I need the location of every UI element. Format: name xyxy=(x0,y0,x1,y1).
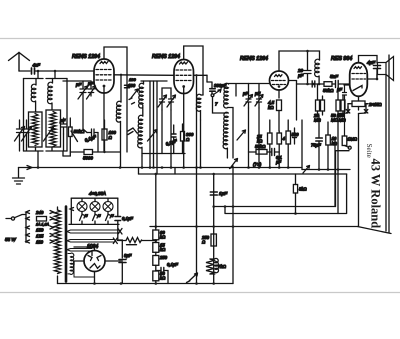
coil L10 xyxy=(223,112,228,158)
svg-text:50kΩ: 50kΩ xyxy=(323,88,334,93)
svg-text:0,1µF: 0,1µF xyxy=(84,134,97,143)
svg-text:125: 125 xyxy=(36,234,44,239)
cathode circuit V4 xyxy=(358,96,360,101)
svg-text:µF: µF xyxy=(298,73,304,78)
svg-text:50kΩ: 50kΩ xyxy=(255,144,266,149)
rail y226 xyxy=(150,226,358,228)
lamp bottom line xyxy=(69,223,119,225)
HV winding xyxy=(70,253,74,274)
capacitor 0,1uF xyxy=(87,129,98,136)
svg-text:kΩ: kΩ xyxy=(268,105,274,110)
svg-text:70µF: 70µF xyxy=(311,143,321,148)
cathode wire V1 xyxy=(103,87,105,152)
tank2 bottom rail xyxy=(46,134,67,151)
resistor 250 xyxy=(211,234,216,246)
top cap wire V2 xyxy=(184,46,203,95)
wire row y83 (tube3 grid) xyxy=(229,84,270,97)
coil box L2 xyxy=(29,112,43,147)
wire mid row y152 xyxy=(63,152,120,156)
svg-text:RENS 1264: RENS 1264 xyxy=(240,56,268,62)
frame bottom slant xyxy=(358,227,392,234)
potentiometer 50k xyxy=(69,127,73,137)
svg-text:4µF: 4µF xyxy=(367,60,376,65)
electrolytic 8uF xyxy=(119,260,126,263)
top cap wire V4 xyxy=(359,56,378,64)
node: main ground bus xyxy=(19,167,197,169)
selector column xyxy=(25,212,27,243)
wire row y81 xyxy=(141,80,167,82)
bus right of jog xyxy=(197,167,303,169)
switch S4 xyxy=(230,159,238,169)
trimmer capacitor C5 xyxy=(80,81,86,129)
capacitor 0,1uF lamps xyxy=(118,198,123,258)
vertical wires to bus xyxy=(150,81,157,174)
svg-text:2×15Ω: 2×15Ω xyxy=(368,102,382,107)
wire tank bottoms to bus xyxy=(37,151,39,168)
svg-text:1MΩ: 1MΩ xyxy=(348,137,358,142)
resistor 500 with cap xyxy=(286,131,291,144)
svg-text:1A 1,6A: 1A 1,6A xyxy=(36,223,50,227)
svg-text:0,1µF: 0,1µF xyxy=(122,216,133,221)
svg-text:5nF: 5nF xyxy=(330,74,339,79)
svg-text:µF: µF xyxy=(276,160,281,165)
svg-text:µF: µF xyxy=(337,87,342,92)
capacitor 20pF xyxy=(304,51,311,84)
field coil + resistor xyxy=(206,259,214,274)
junction dots bus xyxy=(37,166,40,169)
capacitor 3,1uF xyxy=(161,268,164,274)
cap blob 0,1 xyxy=(172,134,177,137)
svg-text:Ω: Ω xyxy=(186,137,190,142)
svg-text:RENS 1294: RENS 1294 xyxy=(152,54,180,60)
frame right border xyxy=(388,55,390,233)
svg-text:100: 100 xyxy=(128,83,136,88)
capacitor 4uF xyxy=(374,66,381,69)
coil L9 xyxy=(224,83,229,108)
svg-text:240: 240 xyxy=(35,210,44,215)
speaker xyxy=(378,57,394,81)
svg-text:100: 100 xyxy=(129,77,136,82)
variable capacitor C2 xyxy=(24,120,29,145)
coil L6 xyxy=(139,83,144,116)
svg-text:5kΩ: 5kΩ xyxy=(299,187,307,192)
svg-text:kΩ: kΩ xyxy=(160,247,166,252)
capacitor 1uF xyxy=(210,192,217,195)
capacitor (grid) xyxy=(343,85,347,136)
wire row y153.5 xyxy=(142,153,185,155)
bottom bus xyxy=(58,283,234,285)
coil box L4 xyxy=(46,110,61,147)
wiper arrow L7 xyxy=(148,130,158,142)
resistor 4,5k xyxy=(277,100,282,111)
coil L1 xyxy=(31,79,36,113)
resistor chain xyxy=(153,230,159,240)
grid wire V4 xyxy=(344,84,350,86)
svg-text:150: 150 xyxy=(36,228,44,233)
page rule top xyxy=(0,38,400,40)
switch arrow (AVC) xyxy=(303,166,310,174)
mains switch xyxy=(6,218,12,220)
svg-text:5000: 5000 xyxy=(83,156,93,161)
svg-text:U: U xyxy=(98,214,101,218)
switch S3 xyxy=(211,94,214,97)
resistor 10k xyxy=(326,135,331,145)
wire tank1 left xyxy=(23,79,25,152)
transformer T1 primary xyxy=(55,210,61,274)
resistor pair 100M xyxy=(336,100,340,111)
capacitor 300pF xyxy=(207,82,212,88)
wire row y84 (AF line) xyxy=(297,83,350,85)
variable capacitor C3 xyxy=(44,127,54,142)
resistor 50k (series AF) xyxy=(324,82,332,87)
svg-text:4×0,35A: 4×0,35A xyxy=(89,191,106,196)
wiper arrow L10 xyxy=(237,130,246,140)
wire drops power section xyxy=(156,168,233,284)
anode wire V1 xyxy=(114,74,174,77)
AF choke coil L11 xyxy=(315,59,320,84)
trimmer capacitor C6 xyxy=(88,81,93,96)
small resistor GND box xyxy=(293,185,297,194)
svg-text:RENS 1294: RENS 1294 xyxy=(72,54,100,60)
capacitor 5000 xyxy=(84,150,93,155)
junction xyxy=(37,70,40,73)
trimmer capacitor C10 xyxy=(257,96,262,108)
svg-text:Ω: Ω xyxy=(109,135,113,140)
rail y213 xyxy=(225,174,347,214)
variable capacitor C1 xyxy=(17,120,23,145)
anode wire V3 xyxy=(289,81,297,121)
lamp feed vertical xyxy=(70,198,72,224)
svg-text:pF: pF xyxy=(87,81,94,86)
svg-text:kΩ: kΩ xyxy=(160,235,166,240)
svg-text:(7×): (7×) xyxy=(253,162,262,167)
potentiometer 1M xyxy=(342,136,347,146)
page rule bottom xyxy=(0,292,400,294)
resistor 300 xyxy=(181,132,185,142)
cathode wire V2 xyxy=(183,88,185,168)
svg-text:pF: pF xyxy=(242,91,248,96)
potentiometer arrow xyxy=(187,273,198,283)
coil L7 (tapped) xyxy=(138,115,143,156)
heater winding loop 2 xyxy=(67,240,114,243)
top cap wire V3 xyxy=(279,51,320,71)
capacitor 4nF (antenna coupling) xyxy=(32,68,35,74)
X marks xyxy=(346,110,368,114)
svg-text:pF: pF xyxy=(254,91,260,96)
rail y206 xyxy=(214,140,335,207)
capacitor 5nF xyxy=(336,81,339,88)
wire antenna to coupling cap xyxy=(19,70,30,72)
antenna xyxy=(9,53,30,72)
fuse xyxy=(37,217,47,222)
heater winding loop 1 xyxy=(67,230,119,233)
top cap wire V1 xyxy=(104,47,127,152)
resistor 25k xyxy=(268,133,273,144)
svg-text:250: 250 xyxy=(159,255,168,260)
svg-text:pF: pF xyxy=(75,82,82,87)
resistor 100 xyxy=(102,129,107,140)
wire trimmer row xyxy=(63,80,91,82)
capacitor 0,1uF det xyxy=(272,149,275,156)
svg-text:MΩ: MΩ xyxy=(314,118,321,123)
svg-text:U: U xyxy=(111,214,114,218)
resistor 50k detector load xyxy=(256,150,267,155)
wire tank2 riser xyxy=(54,71,56,79)
wire pot bottom xyxy=(336,150,350,152)
cathode wire V3 xyxy=(278,90,280,98)
svg-text:8µF: 8µF xyxy=(124,253,132,258)
wire to first grid line xyxy=(35,70,95,72)
trimmer capacitor C7 xyxy=(160,93,165,110)
lamp switches xyxy=(80,212,86,225)
svg-text:kΩ: kΩ xyxy=(257,139,263,144)
riser wires right xyxy=(335,151,337,207)
switch S2 xyxy=(128,128,137,135)
capacitor C4 xyxy=(61,118,66,134)
heater winding loop 3 xyxy=(67,249,92,252)
svg-text:U: U xyxy=(85,214,88,218)
tank2 right wire xyxy=(66,79,68,152)
coil L3 xyxy=(48,79,53,111)
trimmer capacitor C9 xyxy=(246,96,251,108)
choke zigzag xyxy=(126,238,142,243)
svg-text:1µF: 1µF xyxy=(219,191,228,196)
svg-text:4nF: 4nF xyxy=(33,63,41,68)
resistor (second) xyxy=(277,133,282,144)
tank1 bottom rail xyxy=(20,145,44,151)
svg-text:0,1µF: 0,1µF xyxy=(167,262,178,267)
svg-text:pF: pF xyxy=(59,118,66,123)
transformer core xyxy=(65,207,68,282)
svg-text:4: 4 xyxy=(283,136,286,141)
svg-text:Seite: Seite xyxy=(365,144,373,158)
svg-text:43 W Roland: 43 W Roland xyxy=(369,159,383,229)
svg-text:7kΩ: 7kΩ xyxy=(218,264,227,269)
svg-text:kΩ: kΩ xyxy=(160,276,166,281)
wire anode to speaker node xyxy=(367,78,377,80)
IF coil L5 xyxy=(120,75,122,102)
capacitor (small, AF) xyxy=(312,81,315,87)
capacitor 70uF xyxy=(316,138,323,141)
anode wire V2 xyxy=(194,74,208,76)
resistor pair 10M xyxy=(316,100,320,111)
svg-text:55 W: 55 W xyxy=(5,237,16,242)
node: tank1 top rail xyxy=(24,78,44,80)
speaker return wire xyxy=(385,75,387,232)
switch S1 xyxy=(129,89,138,104)
trimmer capacitor C8 xyxy=(169,93,174,110)
capacitor 100pF anode V1 xyxy=(125,85,130,88)
svg-text:7: 7 xyxy=(215,102,218,107)
detector coil L8 xyxy=(196,94,201,120)
svg-text:Ω: Ω xyxy=(202,240,206,245)
ground xyxy=(13,168,25,185)
bus jog xyxy=(138,168,140,175)
node: tank2 top rail xyxy=(46,78,67,80)
svg-text:RES 964: RES 964 xyxy=(331,56,352,62)
svg-text:110: 110 xyxy=(36,240,44,245)
